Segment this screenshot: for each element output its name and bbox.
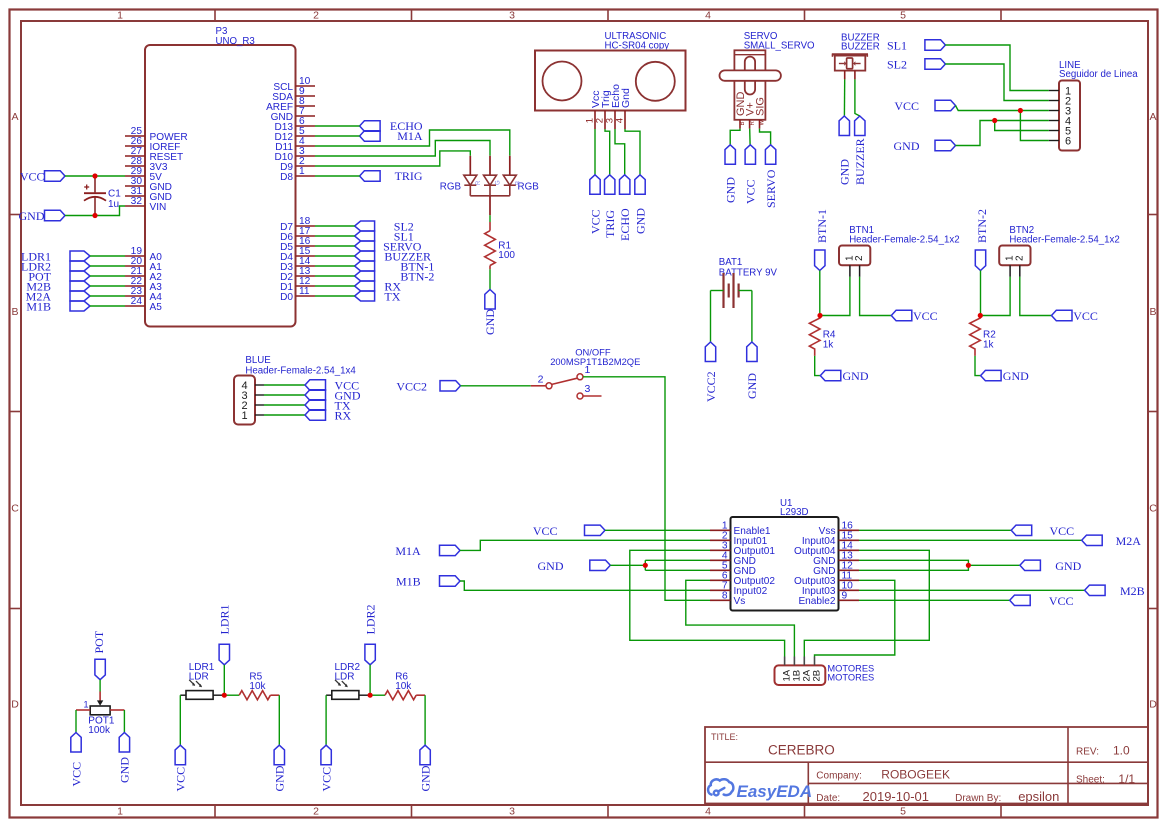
svg-text:SL1: SL1	[887, 38, 907, 52]
svg-text:VCC: VCC	[588, 209, 602, 234]
svg-text:1k: 1k	[983, 340, 995, 351]
svg-text:Company:: Company:	[816, 771, 862, 782]
svg-text:VCC: VCC	[1049, 594, 1074, 608]
svg-text:VCC: VCC	[319, 767, 333, 792]
svg-text:BAT1: BAT1	[719, 257, 743, 268]
svg-text:GND: GND	[724, 177, 738, 203]
svg-text:D0: D0	[280, 292, 293, 303]
svg-text:32: 32	[131, 196, 143, 207]
svg-text:1: 1	[241, 410, 247, 422]
svg-text:C: C	[1149, 503, 1157, 515]
svg-text:D: D	[1149, 699, 1157, 711]
svg-text:BUZZER: BUZZER	[841, 42, 880, 53]
svg-text:M1B: M1B	[26, 300, 51, 314]
svg-text:BTN-1: BTN-1	[815, 209, 829, 243]
svg-text:VCC: VCC	[1050, 524, 1075, 538]
svg-text:BLUE: BLUE	[245, 355, 271, 366]
svg-text:200MSP1T1B2M2QE: 200MSP1T1B2M2QE	[550, 356, 640, 367]
svg-text:BTN-2: BTN-2	[975, 209, 989, 243]
svg-text:11: 11	[299, 286, 310, 297]
svg-text:M2A: M2A	[1116, 534, 1142, 548]
svg-text:VCC2: VCC2	[396, 379, 427, 393]
svg-text:REV:: REV:	[1076, 747, 1099, 758]
svg-text:R: R	[476, 180, 482, 185]
svg-text:LDR: LDR	[335, 672, 355, 683]
svg-text:2: 2	[538, 373, 544, 385]
svg-text:A: A	[11, 111, 18, 123]
svg-text:GND: GND	[1003, 369, 1029, 383]
svg-text:3: 3	[509, 806, 515, 818]
svg-text:GND: GND	[843, 369, 869, 383]
svg-text:D8: D8	[280, 172, 293, 183]
svg-text:SERVO: SERVO	[764, 169, 778, 208]
svg-text:VCC: VCC	[1073, 309, 1098, 323]
svg-text:B: B	[1149, 306, 1156, 318]
svg-text:2: 2	[1014, 255, 1025, 261]
svg-text:BTN-2: BTN-2	[400, 270, 434, 284]
svg-text:VCC: VCC	[69, 762, 83, 787]
svg-text:GND: GND	[483, 309, 497, 335]
svg-text:6: 6	[1065, 135, 1071, 147]
svg-text:TX: TX	[384, 290, 400, 304]
svg-text:Gnd: Gnd	[620, 88, 632, 108]
svg-text:TITLE:: TITLE:	[711, 732, 738, 742]
svg-text:GND: GND	[837, 159, 851, 185]
svg-text:ROBOGEEK: ROBOGEEK	[881, 768, 950, 782]
svg-text:VCC: VCC	[743, 179, 757, 204]
svg-text:8: 8	[722, 591, 728, 602]
svg-text:VIN: VIN	[150, 202, 167, 213]
svg-text:VCC2: VCC2	[704, 371, 718, 402]
svg-text:3: 3	[585, 383, 591, 395]
svg-text:LDR2: LDR2	[363, 605, 377, 635]
svg-text:MOTORES: MOTORES	[827, 673, 874, 683]
svg-text:GND: GND	[633, 208, 647, 234]
svg-text:C: C	[11, 503, 19, 515]
svg-text:RX: RX	[335, 409, 352, 423]
svg-text:POT: POT	[92, 630, 106, 653]
svg-text:BUZZER: BUZZER	[853, 138, 867, 185]
svg-text:VCC: VCC	[533, 524, 558, 538]
svg-text:5: 5	[900, 806, 906, 818]
svg-text:VCC: VCC	[894, 99, 919, 113]
svg-text:M2B: M2B	[1120, 584, 1145, 598]
svg-text:W: W	[760, 120, 766, 126]
svg-text:ECHO: ECHO	[618, 208, 632, 241]
svg-text:LDR1: LDR1	[218, 605, 232, 635]
svg-text:100k: 100k	[88, 725, 111, 736]
svg-text:10k: 10k	[249, 681, 266, 692]
svg-text:1: 1	[299, 166, 305, 177]
svg-text:B: B	[515, 181, 521, 185]
svg-text:GND: GND	[418, 765, 432, 791]
svg-text:G: G	[496, 180, 502, 185]
svg-text:EasyEDA: EasyEDA	[737, 782, 813, 801]
svg-text:D: D	[11, 699, 19, 711]
svg-text:4: 4	[705, 806, 711, 818]
svg-text:1: 1	[117, 10, 123, 22]
svg-text:Header-Female-2.54_1x2: Header-Female-2.54_1x2	[849, 234, 959, 245]
svg-text:24: 24	[131, 296, 143, 307]
svg-text:2: 2	[313, 806, 319, 818]
svg-text:SIG: SIG	[754, 97, 766, 116]
svg-text:5: 5	[900, 10, 906, 22]
svg-text:2019-10-01: 2019-10-01	[863, 789, 930, 804]
svg-text:LDR: LDR	[189, 672, 209, 683]
svg-text:VCC: VCC	[20, 169, 45, 183]
svg-text:1k: 1k	[823, 340, 835, 351]
svg-text:Seguidor de Linea: Seguidor de Linea	[1059, 69, 1138, 80]
svg-text:SL2: SL2	[887, 57, 907, 71]
svg-text:C1: C1	[108, 189, 121, 200]
svg-text:2: 2	[854, 255, 865, 261]
svg-text:4: 4	[614, 118, 625, 123]
svg-text:TRIG: TRIG	[603, 210, 617, 238]
svg-text:3: 3	[509, 10, 515, 22]
svg-text:R: R	[750, 121, 756, 126]
svg-text:Vs: Vs	[734, 596, 746, 607]
svg-text:Drawn By:: Drawn By:	[955, 793, 1001, 804]
svg-text:2B: 2B	[812, 670, 823, 682]
svg-text:1u: 1u	[108, 199, 119, 210]
svg-text:2: 2	[313, 10, 319, 22]
svg-text:BATTERY 9V: BATTERY 9V	[719, 268, 778, 279]
svg-text:Date:: Date:	[816, 793, 840, 804]
svg-text:GND: GND	[1055, 559, 1081, 573]
svg-text:GND: GND	[745, 373, 759, 399]
svg-text:TRIG: TRIG	[395, 169, 423, 183]
svg-text:9: 9	[842, 591, 848, 602]
svg-text:GND: GND	[19, 209, 45, 223]
svg-text:Header-Female-2.54_1x2: Header-Female-2.54_1x2	[1009, 234, 1119, 245]
svg-text:1: 1	[83, 700, 88, 710]
svg-text:UNO_R3: UNO_R3	[216, 36, 255, 47]
svg-text:epsilon: epsilon	[1018, 789, 1059, 804]
svg-text:GND: GND	[273, 765, 287, 791]
svg-text:GND: GND	[118, 757, 132, 783]
svg-text:VCC: VCC	[913, 309, 938, 323]
svg-text:M1A: M1A	[397, 129, 423, 143]
svg-text:1/1: 1/1	[1118, 772, 1135, 786]
svg-text:1.0: 1.0	[1113, 744, 1130, 758]
svg-text:B: B	[11, 306, 18, 318]
svg-text:1: 1	[117, 806, 123, 818]
svg-text:CEREBRO: CEREBRO	[768, 743, 835, 758]
svg-text:A: A	[1149, 111, 1156, 123]
svg-text:10k: 10k	[395, 681, 412, 692]
svg-text:Sheet:: Sheet:	[1076, 775, 1105, 786]
svg-text:B: B	[740, 121, 746, 125]
svg-text:Enable2: Enable2	[798, 596, 835, 607]
svg-text:M1B: M1B	[396, 574, 421, 588]
svg-text:GND: GND	[538, 559, 564, 573]
svg-text:VCC: VCC	[174, 767, 188, 792]
svg-text:A5: A5	[150, 302, 163, 313]
svg-text:4: 4	[705, 10, 711, 22]
svg-text:GND: GND	[894, 139, 920, 153]
svg-text:100: 100	[498, 250, 515, 261]
svg-text:M1A: M1A	[395, 544, 421, 558]
svg-text:Header-Female-2.54_1x4: Header-Female-2.54_1x4	[245, 366, 356, 377]
svg-text:RGB: RGB	[440, 182, 462, 193]
